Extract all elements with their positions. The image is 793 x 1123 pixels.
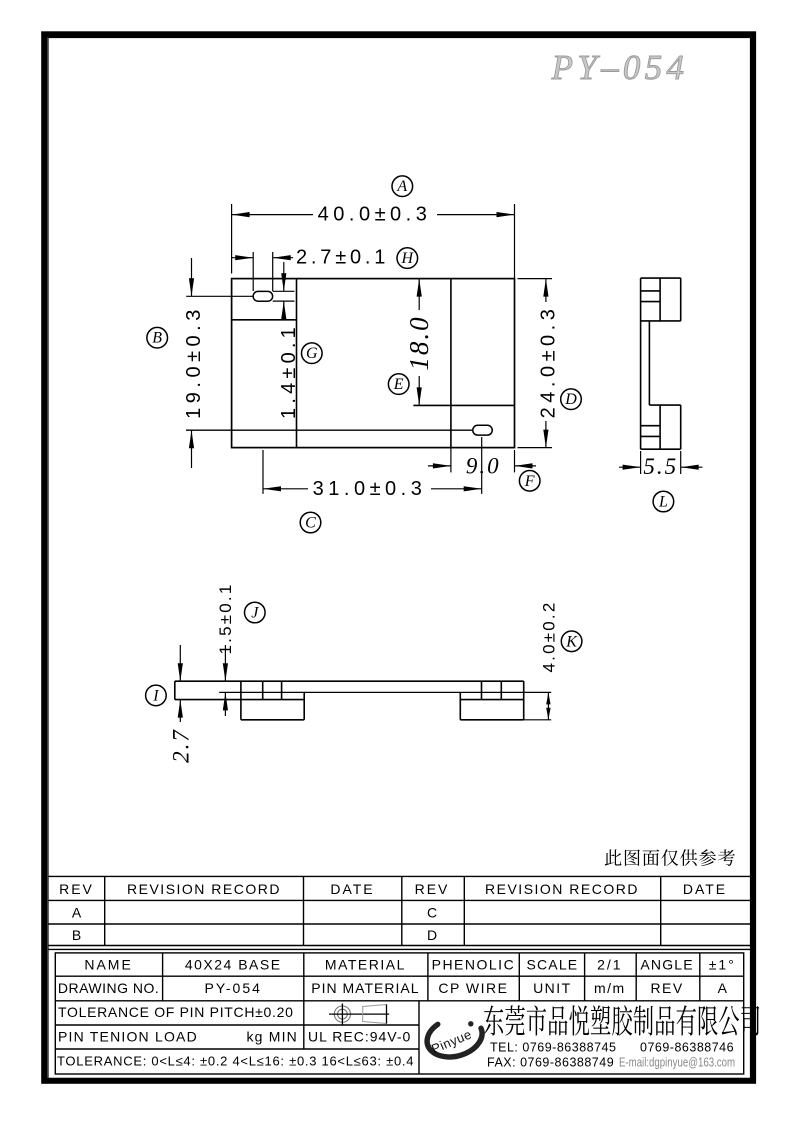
svg-text:D: D: [564, 391, 577, 408]
svg-text:FAX: 0769-86388749: FAX: 0769-86388749: [487, 1056, 614, 1070]
svg-text:K: K: [565, 633, 578, 650]
svg-text:TOLERANCE OF PIN PITCH±0.20: TOLERANCE OF PIN PITCH±0.20: [58, 1004, 294, 1020]
svg-text:TEL: 0769-86388745: TEL: 0769-86388745: [490, 1041, 616, 1055]
svg-text:C: C: [427, 905, 437, 921]
svg-text:±1°: ±1°: [709, 957, 736, 973]
svg-text:PIN MATERIAL: PIN MATERIAL: [311, 980, 419, 996]
svg-text:PY-054: PY-054: [204, 980, 261, 996]
svg-text:REV: REV: [415, 881, 450, 897]
svg-text:J: J: [251, 605, 259, 622]
svg-text:C: C: [305, 515, 316, 532]
svg-text:MATERIAL: MATERIAL: [325, 957, 406, 973]
svg-text:H: H: [401, 250, 415, 267]
svg-text:19.0±0.3: 19.0±0.3: [183, 305, 205, 419]
svg-text:A: A: [72, 905, 82, 921]
svg-text:REV: REV: [59, 881, 94, 897]
svg-text:UNIT: UNIT: [533, 980, 572, 996]
svg-text:B: B: [152, 330, 162, 347]
svg-text:18.0: 18.0: [404, 315, 434, 370]
svg-text:DRAWING NO.: DRAWING NO.: [58, 980, 159, 996]
svg-text:1.5±0.1: 1.5±0.1: [216, 583, 235, 655]
svg-text:24.0±0.3: 24.0±0.3: [538, 305, 560, 419]
svg-text:2/1: 2/1: [597, 957, 622, 973]
svg-text:REVISION RECORD: REVISION RECORD: [127, 881, 281, 897]
svg-text:DATE: DATE: [330, 881, 374, 897]
svg-text:DATE: DATE: [683, 881, 727, 897]
svg-text:TOLERANCE: 0<L≤4: ±0.2 4<L≤16: TOLERANCE: 0<L≤4: ±0.2 4<L≤16: ±0.3 16<L…: [57, 1053, 414, 1068]
svg-text:NAME: NAME: [84, 957, 132, 973]
svg-text:31.0±0.3: 31.0±0.3: [313, 478, 427, 500]
svg-text:REV: REV: [650, 980, 683, 996]
svg-text:D: D: [427, 927, 437, 943]
svg-text:1.4±0.1: 1.4±0.1: [278, 323, 300, 419]
svg-text:REVISION RECORD: REVISION RECORD: [485, 881, 639, 897]
svg-text:2.7±0.1: 2.7±0.1: [296, 247, 389, 269]
svg-text:ANGLE: ANGLE: [640, 957, 693, 973]
svg-text:L: L: [658, 494, 668, 511]
svg-text:I: I: [152, 687, 159, 704]
svg-text:PHENOLIC: PHENOLIC: [432, 957, 516, 973]
svg-text:A: A: [718, 980, 728, 996]
svg-text:40.0±0.3: 40.0±0.3: [318, 204, 432, 226]
svg-text:kg MIN: kg MIN: [246, 1028, 298, 1044]
svg-text:A: A: [396, 178, 407, 195]
svg-text:PIN TENION LOAD: PIN TENION LOAD: [58, 1028, 198, 1044]
svg-text:UL REC:94V-0: UL REC:94V-0: [308, 1028, 411, 1044]
svg-text:m/m: m/m: [594, 980, 626, 996]
svg-text:2.7: 2.7: [169, 728, 194, 763]
svg-text:9.0: 9.0: [466, 454, 501, 479]
svg-text:4.0±0.2: 4.0±0.2: [540, 601, 559, 673]
svg-text:E-mail:dgpinyue@163.com: E-mail:dgpinyue@163.com: [619, 1056, 735, 1070]
svg-text:0769-86388746: 0769-86388746: [640, 1041, 734, 1055]
svg-text:F: F: [524, 473, 535, 490]
svg-text:B: B: [72, 927, 81, 943]
svg-text:5.5: 5.5: [643, 454, 678, 479]
svg-text:40X24 BASE: 40X24 BASE: [185, 957, 282, 973]
svg-text:PY–054: PY–054: [551, 48, 689, 87]
svg-text:E: E: [393, 376, 404, 393]
svg-text:CP WIRE: CP WIRE: [438, 980, 508, 996]
svg-text:SCALE: SCALE: [526, 957, 578, 973]
svg-text:G: G: [306, 345, 318, 362]
